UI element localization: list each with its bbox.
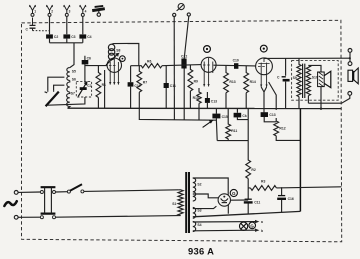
svg-text:S3: S3 bbox=[197, 209, 201, 213]
grid capacitor C17 bbox=[237, 108, 248, 119]
S2 lower tap to rectifier bbox=[193, 194, 219, 198]
svg-text:R14: R14 bbox=[250, 80, 256, 84]
anode supply wire from S8 bbox=[112, 43, 139, 65]
svg-text:C13: C13 bbox=[269, 113, 275, 117]
S3 tap to rectifier filament bbox=[193, 206, 217, 208]
resistor R11 bbox=[217, 108, 248, 140]
circled type mark V1 bbox=[120, 56, 126, 62]
tone capacitor C19 bbox=[285, 58, 287, 108]
svg-text:S7: S7 bbox=[71, 91, 75, 95]
svg-text:S1: S1 bbox=[172, 202, 176, 206]
secondary winding S3 bbox=[193, 207, 196, 218]
heater wire b bbox=[193, 229, 255, 232]
tuning coil S6 bbox=[67, 81, 70, 93]
coupling capacitor C15 bbox=[215, 108, 218, 140]
secondary to voice coil wires bbox=[308, 65, 321, 103]
anode coil S8 bbox=[108, 44, 114, 59]
variable tuning capacitor C1 dashed box bbox=[76, 82, 91, 97]
grid capacitor C18 bbox=[264, 117, 276, 122]
capacitor C10 bbox=[130, 66, 132, 109]
svg-text:C: C bbox=[277, 75, 280, 79]
resistor R10 bbox=[197, 88, 201, 120]
voltage adapter plug bbox=[40, 187, 55, 219]
capacitor C13 bbox=[206, 92, 208, 108]
tuning coil S5 bbox=[70, 43, 74, 68]
capacitor C11 bbox=[165, 66, 167, 109]
B minus bottom wire bbox=[193, 211, 301, 216]
svg-text:a: a bbox=[261, 220, 263, 224]
internal speaker horn bbox=[324, 71, 331, 87]
resistor R7 bbox=[137, 66, 142, 109]
mains wire top bbox=[18, 191, 40, 193]
svg-text:S9: S9 bbox=[293, 76, 297, 80]
antenna A2 bbox=[46, 5, 53, 16]
tuning coil S7 bbox=[67, 92, 70, 108]
svg-text:C10: C10 bbox=[134, 84, 140, 88]
antenna series capacitor C2 bbox=[49, 16, 51, 42]
antenna series capacitor C3 bbox=[66, 16, 68, 42]
anode load resistor R13 bbox=[224, 66, 229, 109]
mains wire bottom bbox=[18, 216, 40, 218]
tube V1 bbox=[107, 58, 121, 85]
svg-text:C10: C10 bbox=[233, 59, 239, 63]
voice coil of internal speaker bbox=[318, 72, 325, 87]
B+ rail wire bbox=[248, 187, 341, 188]
svg-text:C: C bbox=[26, 27, 29, 31]
resistor R6 bbox=[131, 64, 162, 68]
svg-text:S6: S6 bbox=[72, 78, 76, 82]
svg-text:S2: S2 bbox=[197, 182, 201, 186]
output transformer secondary S10 bbox=[306, 65, 310, 95]
antenna A1 trimmer capacitor bbox=[30, 18, 50, 31]
main bus wire (chassis return) bbox=[68, 107, 342, 109]
svg-text:R11: R11 bbox=[231, 129, 237, 133]
svg-text:R9: R9 bbox=[194, 79, 198, 83]
circled G mark lamp bbox=[249, 222, 256, 229]
svg-text:R10: R10 bbox=[193, 96, 199, 100]
svg-text:S4: S4 bbox=[197, 223, 201, 227]
output transformer dashed enclosure bbox=[292, 61, 339, 101]
svg-text:C11: C11 bbox=[170, 84, 176, 88]
voice coil return wire bbox=[320, 87, 322, 109]
B+ wire to output transformer bbox=[299, 109, 301, 212]
resistor R9 bbox=[188, 65, 193, 109]
svg-text:2: 2 bbox=[51, 10, 53, 14]
rectifier tube bbox=[218, 194, 230, 206]
svg-text:C16: C16 bbox=[288, 197, 294, 201]
external speaker return wire bbox=[308, 95, 349, 103]
mains terminal bottom bbox=[14, 215, 18, 219]
svg-text:R1: R1 bbox=[102, 83, 106, 87]
rectifier cathode to B minus wire bbox=[227, 204, 229, 213]
mains wire to transformer top bbox=[56, 190, 179, 192]
svg-text:936 A: 936 A bbox=[188, 245, 214, 256]
AC mains symbol bbox=[4, 201, 16, 206]
resistor R12 bbox=[274, 118, 301, 140]
pickup wire right bbox=[184, 16, 189, 120]
antenna A3 bbox=[63, 5, 70, 16]
svg-text:C1: C1 bbox=[87, 84, 91, 88]
gramophone pickup symbol bbox=[177, 4, 185, 11]
svg-text:S5: S5 bbox=[72, 70, 76, 74]
pickup wire left bbox=[173, 17, 175, 120]
svg-text:b: b bbox=[261, 229, 263, 233]
tube V2 bbox=[201, 57, 216, 86]
smoothing resistor R2 bbox=[246, 108, 251, 192]
svg-text:R3: R3 bbox=[261, 179, 265, 183]
svg-text:R2: R2 bbox=[251, 168, 255, 172]
svg-text:C3: C3 bbox=[71, 35, 75, 39]
coupling capacitor C10b bbox=[234, 63, 238, 69]
svg-text:G: G bbox=[250, 223, 254, 228]
pickup terminal right bbox=[187, 13, 190, 16]
heater wire a bbox=[193, 221, 255, 223]
coupling wire V2 anode to V3 grid bbox=[214, 64, 256, 67]
capacitor C6 grid cap bbox=[85, 56, 108, 82]
antenna A1 bbox=[29, 5, 36, 16]
anode wire of V3 to speaker terminals bbox=[264, 57, 350, 60]
wire R6 to V2 grid bbox=[162, 65, 201, 66]
external speaker jack terminals bbox=[348, 49, 352, 53]
svg-text:R12: R12 bbox=[279, 126, 285, 130]
svg-text:C4: C4 bbox=[87, 35, 91, 39]
external speaker bbox=[348, 68, 358, 84]
chassis dashed border bbox=[22, 20, 342, 242]
mains switch bbox=[67, 190, 70, 193]
V3 cathode wire down bbox=[261, 87, 266, 113]
mains wire to transformer bottom bbox=[56, 216, 179, 218]
svg-text:C13: C13 bbox=[211, 100, 217, 104]
power transformer core bbox=[186, 172, 189, 233]
resistor R1 bbox=[96, 66, 101, 108]
svg-text:C6: C6 bbox=[87, 56, 91, 60]
svg-text:4: 4 bbox=[85, 10, 87, 14]
svg-text:3: 3 bbox=[69, 10, 71, 14]
external speaker bottom terminal bbox=[348, 92, 352, 96]
pickup terminal left bbox=[173, 13, 176, 16]
variable coupling arrow on V1 bbox=[106, 54, 118, 65]
HT wire S2 to rectifier anode bbox=[193, 178, 228, 195]
svg-text:G: G bbox=[232, 191, 236, 196]
cathode wire of V1 bbox=[104, 70, 106, 108]
wire C1 to switch bbox=[48, 97, 85, 105]
circled type mark above V3 bbox=[260, 45, 267, 52]
coil tap wires to wave switch bbox=[48, 77, 65, 90]
heater winding S4 bbox=[193, 221, 196, 231]
svg-text:1: 1 bbox=[34, 10, 36, 14]
rectifier output wire bbox=[230, 199, 248, 201]
tube V3 output bbox=[256, 58, 273, 87]
circled type mark above V2 bbox=[204, 46, 211, 53]
antenna bus wire bbox=[50, 42, 83, 44]
svg-text:R7: R7 bbox=[143, 81, 147, 85]
ground terminal symbol bbox=[92, 6, 105, 16]
output transformer core bbox=[303, 64, 305, 98]
electrolytic C16 bbox=[281, 187, 283, 212]
output transformer primary S9 bbox=[297, 58, 301, 96]
svg-text:C11: C11 bbox=[254, 201, 260, 205]
svg-text:C2: C2 bbox=[54, 35, 58, 39]
svg-text:Ck: Ck bbox=[242, 114, 246, 118]
volume control wire bbox=[139, 108, 216, 120]
wave change switch lever bbox=[46, 92, 59, 107]
V3 screen wire bbox=[269, 82, 277, 110]
svg-text:R13: R13 bbox=[229, 80, 235, 84]
circled G mark rectifier bbox=[230, 189, 237, 196]
power transformer primary S1 bbox=[178, 190, 183, 216]
svg-text:C12: C12 bbox=[181, 55, 187, 59]
antenna A4 bbox=[79, 5, 86, 16]
svg-text:S10: S10 bbox=[312, 76, 318, 80]
grid leak resistor R14 bbox=[244, 66, 249, 108]
svg-text:R6: R6 bbox=[147, 59, 151, 63]
mains terminal top bbox=[14, 191, 18, 195]
potentiometer wiper arrow bbox=[203, 121, 212, 128]
capacitor C12 in pickup lead bbox=[181, 59, 186, 69]
pilot lamp bbox=[240, 222, 248, 230]
electrolytic C14 bbox=[247, 192, 249, 214]
svg-text:S8: S8 bbox=[116, 49, 120, 53]
antenna series capacitor C4 bbox=[82, 16, 84, 42]
filter resistor R3 bbox=[250, 186, 276, 191]
svg-text:C15: C15 bbox=[222, 115, 228, 119]
secondary winding S2 bbox=[193, 178, 196, 201]
